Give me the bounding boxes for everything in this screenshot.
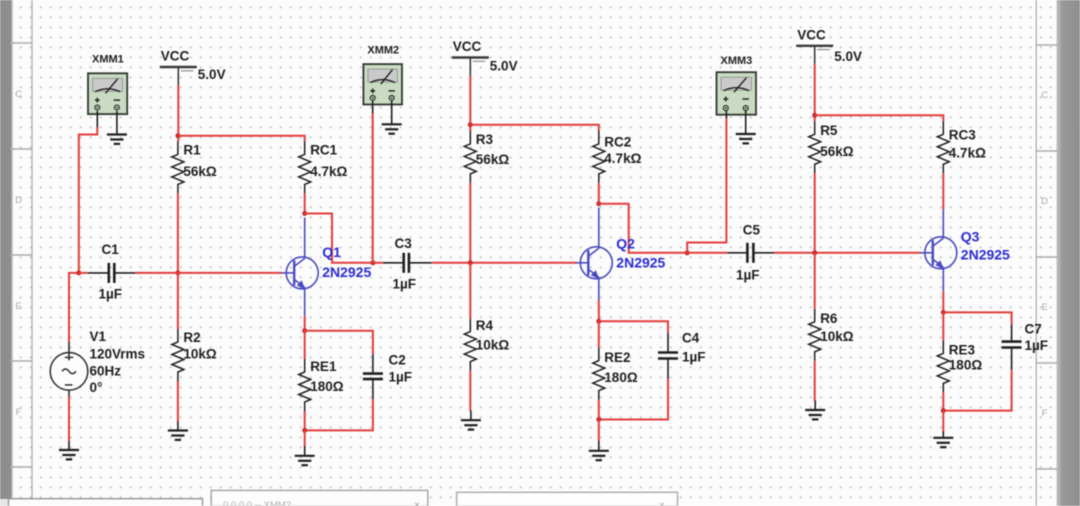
wire VCC3 to R5/RC3 junction [814, 64, 816, 122]
bottom multimeter window titlebar 2 [457, 492, 678, 506]
junction VCC1/R1/RC1 [175, 133, 180, 138]
ground XMM3 [736, 111, 756, 143]
wire RE2 to bottom junction [598, 400, 600, 420]
capacitor C2 1uF [363, 353, 412, 400]
svg-text:56kΩ: 56kΩ [476, 152, 510, 167]
junction RE2/C4 bottom [596, 417, 601, 422]
right sheet border line [1035, 0, 1037, 506]
wire emitter node to C4 top [599, 321, 668, 333]
junction VCC2/R3/RC2 [468, 122, 473, 127]
power VCC2 5.0V [452, 39, 518, 76]
wire RE3 to bottom junction [942, 392, 944, 410]
svg-text:R2: R2 [183, 330, 200, 345]
svg-text:E: E [15, 301, 21, 312]
wire C1 to Q1 base [135, 272, 282, 274]
junction VCC3/R5/RC3 [812, 113, 817, 118]
wire input node to C1 [79, 272, 88, 274]
wire C5 to stage3 base node [774, 252, 920, 254]
left border zone ticks [10, 43, 32, 467]
wire XMM2 plus terminal down to coupling node [372, 101, 374, 114]
svg-text:C: C [15, 89, 22, 100]
resistor RE2 180 [593, 348, 638, 400]
svg-text:C5: C5 [743, 223, 761, 238]
bottom multimeter window XMM1 titlebar [211, 490, 428, 506]
resistor RE1 180 [299, 359, 344, 411]
svg-text:RE3: RE3 [949, 343, 976, 358]
capacitor C4 1uF [658, 331, 706, 379]
wire collector node jog to coupling row [599, 204, 687, 253]
svg-text:R6: R6 [820, 311, 838, 326]
ground XMM2 [382, 101, 402, 134]
svg-text:0.0 0.0 -- XMM2: 0.0 0.0 -- XMM2 [223, 500, 291, 506]
wire coupling node step up to XMM3 [687, 117, 726, 253]
wire XMM1 plus terminal down to input node [96, 111, 98, 128]
right border zone ticks [1036, 45, 1058, 469]
svg-text:2N2925: 2N2925 [961, 247, 1010, 263]
wire base node to R4 [469, 263, 471, 319]
svg-text:180Ω: 180Ω [604, 370, 638, 385]
svg-text:Q1: Q1 [322, 244, 341, 260]
ground V1 [59, 441, 79, 459]
svg-text:XMM2: XMM2 [367, 45, 399, 57]
transistor Q3 2N2925 [920, 210, 1010, 292]
wire bias rail to RC3 [815, 115, 944, 121]
svg-text:0°: 0° [90, 380, 103, 395]
svg-text:4.7kΩ: 4.7kΩ [310, 164, 347, 179]
wire R5 bottom to base node [814, 173, 816, 253]
resistor R6 10k [809, 309, 854, 361]
svg-text:10kΩ: 10kΩ [476, 338, 510, 353]
wire RC1 to collector node [304, 193, 306, 213]
svg-text:1µF: 1µF [393, 277, 417, 292]
wire coupling node to C5 [687, 252, 727, 254]
wire C7 bottom to RE3 bottom junction [943, 370, 1011, 410]
capacitor C5 1uF [727, 223, 774, 283]
svg-text:C: C [1041, 90, 1048, 101]
junction emitter node Q2/RE2/C4 [596, 319, 601, 324]
svg-text:C3: C3 [395, 236, 413, 251]
wire Q2 emitter to RE2 [598, 300, 600, 321]
bottom-left docked panel edge [9, 499, 203, 506]
svg-text:RE2: RE2 [604, 350, 630, 365]
svg-text:1µF: 1µF [99, 287, 123, 302]
wire V1 plus to input node [69, 273, 79, 342]
right border zone letters C D E F [1041, 90, 1048, 419]
svg-text:R1: R1 [183, 143, 201, 158]
wire Q3 emitter to RE3 [942, 291, 944, 312]
svg-text:XMM1: XMM1 [92, 54, 124, 66]
wire Q1 emitter to RE1 [304, 316, 306, 330]
left gray margin [0, 0, 13, 499]
wire base node to R6 [814, 253, 816, 309]
svg-text:R4: R4 [476, 318, 494, 333]
svg-text:2N2925: 2N2925 [322, 264, 371, 280]
wire bias rail to RC1 [178, 136, 305, 142]
svg-text:5.0V: 5.0V [834, 49, 862, 64]
junction coupling node XMM2/C3 [371, 260, 376, 265]
wire VCC1 to R1/RC1 junction [177, 85, 179, 141]
junction emitter node Q3/RE3/C7 [941, 310, 946, 315]
ground R4 [461, 411, 481, 430]
svg-text:V1: V1 [90, 329, 107, 344]
svg-text:RC1: RC1 [310, 143, 337, 158]
power VCC3 5.0V [796, 27, 862, 64]
ground R2 [168, 422, 188, 440]
junction stage2 base node R3/R4 [468, 260, 473, 265]
svg-text:×: × [659, 500, 665, 506]
wire emitter node to RE1 [304, 331, 306, 359]
resistor RC3 4.7k [937, 121, 986, 173]
ground R6 [805, 401, 825, 420]
resistor R2 10k [172, 329, 217, 381]
svg-text:R5: R5 [820, 123, 838, 138]
resistor R5 56k [809, 121, 854, 173]
svg-text:C1: C1 [102, 242, 120, 257]
junction coupling node XMM3/C5 [685, 250, 690, 255]
resistor R1 56k [172, 141, 217, 193]
svg-text:180Ω: 180Ω [310, 379, 344, 394]
svg-text:F: F [16, 407, 22, 418]
svg-text:VCC: VCC [797, 27, 826, 42]
transistor Q2 2N2925 [576, 208, 666, 301]
svg-text:2N2925: 2N2925 [616, 255, 665, 271]
wire C3 to stage2 base node [432, 262, 577, 264]
multimeter XMM3 [717, 55, 757, 115]
junction base node R1/R2 [175, 270, 180, 275]
wire emitter node to RE3 [942, 312, 944, 340]
resistor RC1 4.7k [299, 141, 348, 193]
junction RE3/C7 bottom [941, 408, 946, 413]
wire R6 to ground [814, 361, 816, 401]
wire emitter node to RE2 [598, 321, 600, 347]
svg-text:1µF: 1µF [736, 268, 760, 283]
wire emitter node to C2 top [305, 331, 373, 354]
svg-text:56kΩ: 56kΩ [820, 144, 854, 159]
capacitor C1 1uF [88, 242, 136, 302]
svg-text:C4: C4 [682, 331, 700, 346]
svg-text:56kΩ: 56kΩ [183, 164, 217, 179]
svg-text:VCC: VCC [453, 39, 482, 54]
wire bottom junction to ground [304, 430, 306, 446]
left border zone letters C D E F [15, 89, 22, 418]
ground XMM1 [107, 111, 127, 144]
wire coupling node to C3 [373, 262, 383, 264]
svg-text:1µF: 1µF [682, 350, 706, 365]
svg-text:XMM3: XMM3 [721, 55, 753, 67]
resistor R4 10k [464, 318, 509, 371]
wire R3 bottom to base node [469, 183, 471, 263]
wire base node to R2 [177, 273, 179, 329]
wire C2 bottom to RE1 bottom junction [305, 399, 373, 430]
left sheet border line [31, 0, 33, 499]
multimeter XMM2 [363, 45, 402, 105]
svg-text:F: F [1042, 408, 1048, 419]
resistor R3 56k [464, 131, 509, 183]
wire bottom junction to ground [942, 411, 944, 432]
svg-text:D: D [15, 195, 22, 206]
power VCC1 5.0V [160, 49, 226, 86]
svg-text:D: D [1041, 196, 1048, 207]
ground RE1 [295, 446, 315, 465]
svg-text:E: E [1041, 302, 1047, 313]
wire R2 to ground [177, 381, 179, 422]
junction collector node Q2/RC2 [596, 201, 601, 206]
capacitor C7 1uF [1002, 322, 1048, 371]
wire RC3 to Q3 collector [942, 173, 944, 209]
wire R4 to ground [469, 371, 471, 411]
svg-text:5.0V: 5.0V [198, 67, 226, 82]
svg-text:4.7kΩ: 4.7kΩ [604, 151, 641, 166]
svg-text:180Ω: 180Ω [949, 358, 983, 373]
svg-text:RE1: RE1 [310, 359, 337, 374]
wire C4 bottom to RE2 bottom junction [599, 379, 668, 420]
ground RE3 [933, 432, 953, 448]
multimeter XMM1 [88, 54, 127, 115]
svg-text:5.0V: 5.0V [490, 59, 518, 74]
wire bias rail to RC2 [470, 125, 599, 131]
resistor RC2 4.7k [593, 131, 642, 183]
svg-text:×: × [414, 500, 420, 506]
svg-text:4.7kΩ: 4.7kΩ [949, 146, 986, 161]
wire RC2 to collector node [598, 183, 600, 204]
wire RE1 to bottom junction [304, 411, 306, 430]
svg-text:Q2: Q2 [616, 236, 635, 252]
wire V1 minus to ground [68, 397, 70, 441]
junction RE1/C2 bottom [302, 428, 307, 433]
junction input node XMM1/V1/C1 [76, 270, 81, 275]
ground RE2 [589, 441, 609, 460]
wire R1 bottom to base node [177, 193, 179, 273]
svg-text:VCC: VCC [161, 49, 190, 64]
wire collector node jog to coupling row [305, 214, 373, 263]
svg-text:RC2: RC2 [604, 135, 631, 150]
svg-text:R3: R3 [476, 132, 494, 147]
svg-text:RC3: RC3 [949, 128, 976, 143]
wire emitter node to C7 top [943, 312, 1011, 324]
junction emitter node Q1/RE1/C2 [302, 328, 307, 333]
wire XMM3 plus terminal stub [725, 111, 727, 118]
svg-text:C2: C2 [389, 353, 406, 368]
svg-text:1µF: 1µF [1025, 338, 1049, 353]
svg-text:10kΩ: 10kΩ [820, 329, 854, 344]
resistor RE3 180 [937, 340, 982, 392]
svg-text:120Vrms: 120Vrms [90, 347, 146, 362]
svg-text:1µF: 1µF [389, 370, 413, 385]
capacitor C3 1uF [383, 236, 432, 292]
svg-text:60Hz: 60Hz [90, 364, 122, 379]
svg-text:10kΩ: 10kΩ [183, 347, 217, 362]
junction collector node Q1/RC1 [302, 211, 307, 216]
wire VCC2 to R3/RC2 junction [469, 76, 471, 132]
svg-text:Q3: Q3 [961, 229, 980, 245]
svg-text:C7: C7 [1025, 322, 1042, 337]
junction stage3 base node R5/R6 [812, 250, 817, 255]
source V1 120Vrms 60Hz [50, 329, 145, 397]
transistor Q1 2N2925 [282, 218, 372, 317]
wire bottom junction to ground [598, 420, 600, 442]
